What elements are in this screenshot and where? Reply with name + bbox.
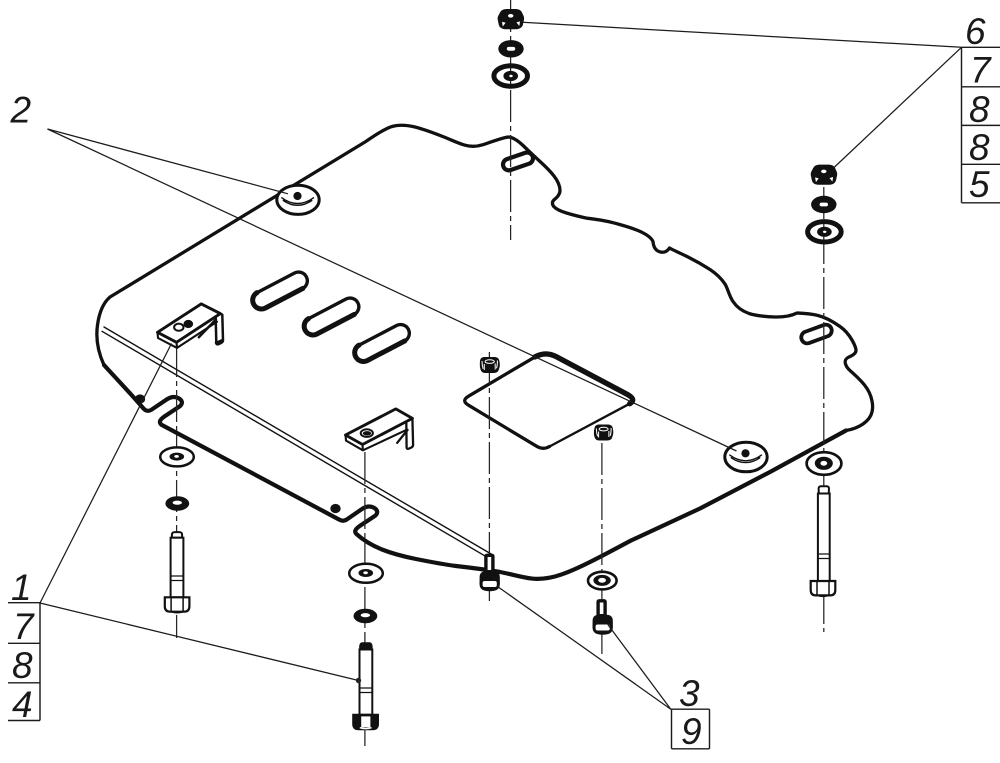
svg-text:3: 3: [679, 673, 700, 714]
svg-text:7: 7: [970, 50, 992, 91]
svg-text:4: 4: [12, 684, 33, 725]
svg-text:8: 8: [969, 127, 990, 168]
svg-text:8: 8: [969, 89, 990, 130]
svg-text:7: 7: [13, 606, 35, 647]
svg-text:9: 9: [681, 711, 702, 752]
svg-text:8: 8: [12, 645, 33, 686]
svg-text:1: 1: [11, 567, 32, 608]
svg-text:6: 6: [965, 11, 986, 52]
svg-text:2: 2: [10, 90, 32, 131]
svg-text:5: 5: [969, 164, 990, 205]
